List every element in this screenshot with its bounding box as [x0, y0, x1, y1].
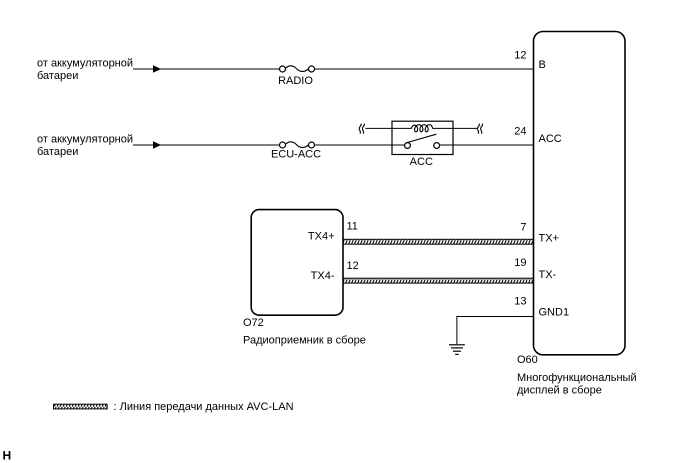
ground: [449, 345, 465, 355]
svg-text:TX4-: TX4-: [311, 270, 335, 282]
svg-text:13: 13: [514, 296, 526, 308]
svg-text:12: 12: [347, 260, 359, 272]
component name: multifunction display assembly: [517, 372, 637, 397]
legend: AVC-LAN line sample: [54, 404, 108, 409]
svg-text:от аккумуляторной: от аккумуляторной: [37, 134, 133, 146]
wire: relay coil left lead: [365, 127, 411, 129]
wire break squiggle (coil right): [477, 124, 482, 134]
relay switch lever: [406, 134, 436, 143]
fuse ECU-ACC: [271, 142, 321, 161]
svg-text:TX+: TX+: [539, 233, 559, 245]
svg-text:O72: O72: [243, 317, 264, 329]
svg-text:ACC: ACC: [410, 156, 433, 168]
svg-text:24: 24: [514, 126, 526, 138]
svg-text:RADIO: RADIO: [278, 75, 313, 87]
svg-text:7: 7: [520, 222, 526, 234]
svg-text:ACC: ACC: [539, 133, 562, 145]
arrow: current direction row 1: [153, 65, 161, 73]
wire break squiggle (coil left): [359, 124, 364, 134]
svg-text:ECU-ACC: ECU-ACC: [271, 149, 321, 161]
relay ACC box: [392, 121, 453, 154]
wire: relay to pin 24: [440, 144, 534, 146]
svg-text:11: 11: [347, 221, 358, 233]
wire: AVC-LAN TX- shielded line: [343, 278, 534, 283]
wire: GND1 to ground: [457, 317, 534, 345]
svg-text:батареи: батареи: [37, 146, 78, 158]
svg-text:Многофункциональный: Многофункциональный: [517, 372, 637, 384]
wire: fuse ECU-ACC to relay ACC: [315, 144, 405, 146]
wire: AVC-LAN TX+ shielded line: [343, 239, 534, 244]
relay switch contacts: [405, 134, 440, 148]
svg-text:дисплей в сборе: дисплей в сборе: [517, 385, 602, 397]
svg-text:от аккумуляторной: от аккумуляторной: [37, 58, 133, 70]
svg-text:12: 12: [514, 50, 526, 62]
svg-text:O60: O60: [517, 354, 538, 366]
wire: fuse RADIO to pin 12: [315, 68, 534, 70]
svg-text:H: H: [3, 449, 12, 463]
svg-text:батареи: батареи: [37, 70, 78, 82]
radio receiver O72 box: [251, 210, 343, 316]
arrow: current direction row 2: [153, 141, 161, 149]
svg-text:TX4+: TX4+: [308, 231, 335, 243]
svg-text:GND1: GND1: [539, 307, 570, 319]
svg-text:19: 19: [514, 257, 526, 269]
svg-text:TX-: TX-: [539, 269, 557, 281]
wire: relay coil right lead: [433, 127, 479, 129]
svg-text:Радиоприемник в сборе: Радиоприемник в сборе: [243, 335, 366, 347]
svg-text:B: B: [539, 59, 546, 71]
svg-text:: Линия передачи данных AVC-LA: : Линия передачи данных AVC-LAN: [114, 401, 294, 413]
wire: battery feed to fuse ECU-ACC: [133, 144, 279, 146]
node: from battery label (row 2): [37, 134, 133, 159]
relay coil windings: [412, 125, 433, 132]
multi-display O60 box: [534, 32, 626, 355]
wire: battery feed to fuse RADIO: [133, 68, 279, 70]
node: from battery label (row 1): [37, 58, 133, 83]
fuse RADIO: [278, 66, 314, 87]
